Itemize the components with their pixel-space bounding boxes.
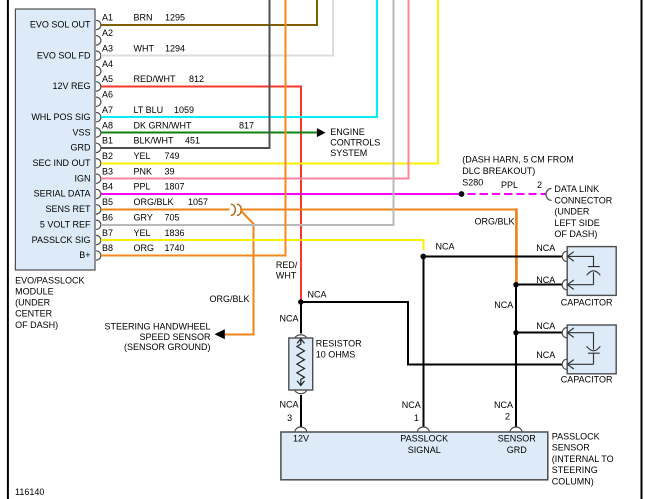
pin B6 connector arc — [96, 220, 101, 229]
svg-text:CAPACITOR: CAPACITOR — [561, 297, 613, 307]
pin B8 connector arc — [96, 251, 101, 260]
svg-text:A7: A7 — [102, 105, 113, 115]
wire A5 RED/WHT 812 — [101, 87, 301, 303]
pin A6 connector arc — [96, 97, 101, 106]
svg-text:STEERING HANDWHEEL: STEERING HANDWHEEL — [104, 321, 210, 331]
junction passlock signal — [420, 254, 426, 260]
capacitor 2 pin 1 arc — [562, 328, 567, 338]
wire NCA passlock signal node down to pin 1 — [422, 257, 424, 428]
svg-text:SPEED SENSOR: SPEED SENSOR — [139, 332, 211, 342]
svg-text:EVO SOL OUT: EVO SOL OUT — [30, 20, 91, 30]
svg-text:NCA: NCA — [536, 321, 555, 331]
break symbol arc 2 — [237, 204, 242, 215]
svg-text:451: 451 — [185, 136, 200, 146]
resistor bottom connector arc — [295, 390, 307, 394]
capacitor 2 symbol — [567, 328, 600, 369]
svg-text:A1: A1 — [102, 13, 113, 23]
svg-text:NCA: NCA — [494, 400, 513, 410]
DLC connector arc — [546, 188, 552, 200]
pin A2 connector arc — [96, 36, 101, 45]
svg-text:B2: B2 — [102, 151, 113, 161]
svg-text:1807: 1807 — [165, 182, 185, 192]
svg-text:B3: B3 — [102, 166, 113, 176]
svg-text:ORG/BLK: ORG/BLK — [209, 294, 249, 304]
svg-text:YEL: YEL — [134, 151, 151, 161]
svg-text:1295: 1295 — [165, 13, 185, 23]
wire NCA passlock signal node to capacitor 1 — [423, 256, 562, 258]
wire B5 ORG/BLK 1057 to break — [101, 208, 230, 210]
wire B6 GRY 705 — [101, 0, 394, 225]
wire B3 PNK 39 — [101, 0, 409, 179]
svg-text:2: 2 — [505, 412, 510, 422]
svg-text:DK GRN/WHT: DK GRN/WHT — [134, 120, 192, 130]
svg-text:CENTER: CENTER — [15, 309, 53, 319]
svg-text:1740: 1740 — [165, 243, 185, 253]
svg-text:12V: 12V — [293, 434, 309, 444]
pin A4 connector arc — [96, 66, 101, 75]
svg-text:B5: B5 — [102, 197, 113, 207]
wire A8 DK GRN/WHT 817 — [101, 132, 317, 134]
svg-text:B8: B8 — [102, 243, 113, 253]
svg-text:EVO/PASSLOCK: EVO/PASSLOCK — [15, 275, 84, 285]
svg-text:A5: A5 — [102, 74, 113, 84]
svg-text:OF DASH): OF DASH) — [15, 320, 58, 330]
svg-text:GRD: GRD — [507, 445, 528, 455]
svg-text:A2: A2 — [102, 28, 113, 38]
passlock sensor box — [281, 432, 548, 480]
svg-text:MODULE: MODULE — [15, 287, 54, 297]
pin B3 connector arc — [96, 174, 101, 183]
passlock sensor pin 3 arc — [295, 427, 307, 432]
svg-text:NCA: NCA — [436, 241, 455, 251]
svg-text:3: 3 — [287, 413, 292, 423]
wire B5 ORG/BLK branch down to sensor — [225, 223, 254, 334]
svg-text:SENS RET: SENS RET — [45, 204, 91, 214]
wire NCA junction to resistor — [300, 302, 302, 333]
svg-text:VSS: VSS — [72, 127, 90, 137]
svg-text:NCA: NCA — [536, 243, 555, 253]
svg-text:1836: 1836 — [165, 228, 185, 238]
svg-text:PASSLCK SIG: PASSLCK SIG — [32, 235, 91, 245]
svg-text:(UNDER: (UNDER — [554, 207, 589, 217]
svg-text:749: 749 — [165, 151, 180, 161]
svg-text:12V REG: 12V REG — [52, 81, 90, 91]
capacitor 1 pin 1 arc — [562, 251, 567, 261]
capacitor 2 box — [567, 325, 616, 374]
svg-text:2: 2 — [537, 180, 542, 190]
svg-text:ENGINE: ENGINE — [330, 127, 365, 137]
wire NCA resistor to passlock pin 3 — [300, 395, 302, 428]
svg-text:1059: 1059 — [174, 105, 194, 115]
svg-text:WHT: WHT — [134, 43, 155, 53]
junction resistor top node — [298, 299, 303, 304]
wire A1 BRN 1295 — [101, 0, 317, 25]
wire B5 ORG/BLK branch diagonal — [241, 210, 254, 223]
svg-text:SEC IND OUT: SEC IND OUT — [32, 158, 91, 168]
svg-text:1294: 1294 — [165, 43, 185, 53]
svg-text:PASSLOCK: PASSLOCK — [400, 434, 448, 444]
page border right — [641, 0, 643, 499]
svg-text:ORG/BLK: ORG/BLK — [474, 216, 514, 226]
svg-text:PPL: PPL — [501, 180, 518, 190]
svg-text:STEERING: STEERING — [552, 465, 598, 475]
svg-text:LT BLU: LT BLU — [134, 105, 164, 115]
svg-text:SERIAL DATA: SERIAL DATA — [34, 189, 91, 199]
svg-text:1: 1 — [414, 413, 419, 423]
svg-text:SENSOR: SENSOR — [552, 443, 591, 453]
svg-text:PPL: PPL — [134, 182, 151, 192]
svg-text:1057: 1057 — [188, 197, 208, 207]
svg-text:B6: B6 — [102, 213, 113, 223]
wire B4 PPL dashed to DLC — [468, 193, 546, 195]
page border left — [7, 0, 9, 499]
capacitor 1 symbol — [567, 252, 600, 290]
svg-text:ORG: ORG — [134, 243, 155, 253]
passlock sensor pin 1 arc — [417, 427, 429, 432]
svg-text:SYSTEM: SYSTEM — [330, 148, 367, 158]
resistor box — [289, 338, 313, 390]
svg-text:GRD: GRD — [71, 143, 92, 153]
svg-text:5 VOLT REF: 5 VOLT REF — [40, 220, 91, 230]
svg-text:NCA: NCA — [536, 350, 555, 360]
svg-text:SENSOR: SENSOR — [498, 434, 537, 444]
svg-text:NCA: NCA — [279, 314, 298, 324]
wire NCA to capacitor 2 pin 1 — [516, 332, 562, 334]
pin A8 connector arc — [96, 128, 101, 137]
svg-text:A3: A3 — [102, 43, 113, 53]
wire NCA down to passlock pin 2 — [515, 333, 517, 428]
svg-text:LEFT SIDE: LEFT SIDE — [554, 218, 599, 228]
wire NCA resistor node to capacitor 2 pin 2 — [301, 302, 562, 364]
pin B5 connector arc — [96, 205, 101, 214]
svg-text:CONNECTOR: CONNECTOR — [554, 195, 612, 205]
svg-text:NCA: NCA — [494, 300, 513, 310]
svg-text:B4: B4 — [102, 182, 113, 192]
capacitor 2 pin 2 arc — [562, 359, 567, 369]
svg-text:A6: A6 — [102, 90, 113, 100]
wire A3 WHT 1294 — [101, 0, 333, 56]
wire B2 YEL 749 — [101, 0, 438, 163]
svg-text:GRY: GRY — [134, 213, 153, 223]
svg-text:NCA: NCA — [536, 275, 555, 285]
svg-text:RESISTOR: RESISTOR — [316, 338, 362, 348]
svg-text:812: 812 — [189, 74, 204, 84]
svg-text:RED/: RED/ — [276, 260, 298, 270]
wire B4 PPL 1807 solid — [101, 193, 462, 195]
wire NCA down to capacitor 2 junction — [515, 285, 517, 333]
EVO/Passlock module box — [15, 9, 95, 270]
svg-text:10 OHMS: 10 OHMS — [316, 349, 356, 359]
svg-text:39: 39 — [165, 166, 175, 176]
svg-text:NCA: NCA — [279, 399, 298, 409]
pin A1 connector arc — [96, 20, 101, 29]
svg-text:B+: B+ — [79, 250, 90, 260]
svg-text:EVO SOL FD: EVO SOL FD — [37, 50, 91, 60]
svg-text:SIGNAL: SIGNAL — [408, 445, 441, 455]
svg-text:ORG/BLK: ORG/BLK — [134, 197, 174, 207]
passlock sensor pin 2 arc — [510, 427, 522, 432]
resistor symbol — [297, 339, 305, 386]
wire B7 YEL 1836 — [101, 240, 424, 250]
svg-text:NCA: NCA — [308, 289, 327, 299]
svg-text:IGN: IGN — [74, 173, 90, 183]
svg-text:BRN: BRN — [134, 13, 153, 23]
pin B2 connector arc — [96, 159, 101, 168]
capacitor 1 pin 2 arc — [562, 280, 567, 290]
svg-text:A8: A8 — [102, 120, 113, 130]
pin B4 connector arc — [96, 189, 101, 198]
svg-text:RED/WHT: RED/WHT — [134, 74, 176, 84]
wire B8 ORG 1740 — [101, 0, 285, 256]
capacitor 1 box — [567, 247, 616, 296]
arrow to steering handwheel speed sensor — [215, 329, 225, 339]
arrow to engine controls — [317, 128, 326, 137]
junction sensor ground / capacitor 1 — [513, 282, 518, 287]
svg-text:WHL POS SIG: WHL POS SIG — [31, 112, 90, 122]
svg-text:BLK/WHT: BLK/WHT — [134, 136, 175, 146]
svg-text:B1: B1 — [102, 136, 113, 146]
svg-text:(DASH HARN, 5 CM FROM: (DASH HARN, 5 CM FROM — [462, 155, 574, 165]
svg-text:B7: B7 — [102, 228, 113, 238]
splice S280 — [459, 191, 465, 197]
svg-text:PASSLOCK: PASSLOCK — [552, 431, 600, 441]
svg-text:WHT: WHT — [276, 271, 297, 281]
pin B7 connector arc — [96, 235, 101, 244]
svg-text:A4: A4 — [102, 59, 113, 69]
svg-text:OF DASH): OF DASH) — [554, 229, 597, 239]
wire B5 ORG/BLK to capacitor net — [240, 208, 518, 210]
svg-text:(INTERNAL TO: (INTERNAL TO — [552, 454, 614, 464]
svg-text:DATA LINK: DATA LINK — [554, 184, 599, 194]
svg-text:CONTROLS: CONTROLS — [330, 137, 380, 147]
svg-text:817: 817 — [239, 120, 254, 130]
pin B1 connector arc — [96, 143, 101, 152]
pin A3 connector arc — [96, 51, 101, 60]
break symbol arc 1 — [231, 204, 236, 215]
svg-text:116140: 116140 — [15, 487, 44, 497]
svg-text:S280: S280 — [462, 178, 483, 188]
svg-text:NCA: NCA — [402, 400, 421, 410]
svg-text:705: 705 — [165, 213, 180, 223]
wire B1 BLK/WHT 451 — [101, 0, 270, 148]
wire NCA to capacitor 1 pin 2 — [516, 284, 562, 286]
pin A5 connector arc — [96, 82, 101, 91]
svg-text:CAPACITOR: CAPACITOR — [561, 374, 613, 384]
wire A7 LT BLU 1059 — [101, 0, 377, 117]
svg-text:YEL: YEL — [134, 228, 151, 238]
svg-text:(UNDER: (UNDER — [15, 298, 50, 308]
pin A7 connector arc — [96, 113, 101, 122]
svg-text:(SENSOR GROUND): (SENSOR GROUND) — [124, 342, 211, 352]
svg-text:PNK: PNK — [134, 166, 153, 176]
resistor top connector arc — [295, 335, 307, 338]
svg-text:DLC BREAKOUT): DLC BREAKOUT) — [462, 166, 535, 176]
wire B5 ORG/BLK vertical to capacitor junction — [515, 208, 518, 284]
junction capacitor 2 — [513, 330, 518, 335]
svg-text:COLUMN): COLUMN) — [552, 477, 594, 487]
